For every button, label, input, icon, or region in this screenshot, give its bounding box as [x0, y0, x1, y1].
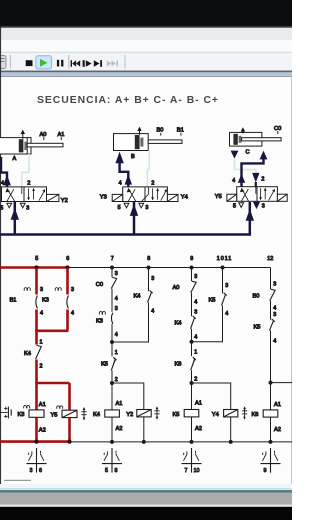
svg-text:K3: K3 — [42, 298, 49, 304]
valve B body — [123, 187, 168, 202]
svg-text:A2: A2 — [39, 428, 46, 434]
contact A0 (NC) — [173, 274, 198, 306]
svg-text:C0: C0 — [96, 282, 103, 288]
col5 wire coil to bottom rail — [35, 417, 38, 441]
svg-text:4: 4 — [225, 311, 228, 317]
contact K5 col1011 (open) — [209, 283, 229, 317]
col6 wire K3 to join — [66, 310, 69, 331]
coil Y4 — [212, 410, 238, 418]
svg-text:A1: A1 — [274, 402, 281, 408]
tube A rod-end (unpressurized) — [22, 154, 29, 187]
cylinder C piston — [233, 134, 241, 145]
cylinder A piston marker arrow — [21, 130, 25, 139]
svg-text:8: 8 — [115, 468, 118, 474]
svg-text:2: 2 — [40, 364, 43, 370]
valve C exhaust 5 — [239, 203, 244, 208]
tube B rod-end (unpressurized) — [147, 151, 149, 188]
col12 wire K5 to coil K6 — [270, 330, 272, 410]
valve B pilot box Y3 — [112, 194, 123, 201]
svg-text:Y3: Y3 — [100, 195, 107, 201]
flow arrow at cylinder C rod port (up) — [260, 151, 268, 160]
tube B cap-end (pressurized) — [120, 160, 129, 187]
bottom node K6 — [269, 440, 273, 444]
svg-text:2: 2 — [261, 177, 264, 183]
svg-text:12: 12 — [267, 256, 273, 262]
svg-text:4: 4 — [194, 335, 197, 341]
valve B port labels 4 2 — [119, 181, 155, 187]
svg-text:3: 3 — [194, 274, 197, 280]
svg-text:2: 2 — [115, 377, 118, 383]
svg-text:3: 3 — [40, 287, 43, 293]
svg-text:K3: K3 — [18, 412, 25, 418]
col7 wire to coil K4 — [111, 383, 113, 410]
coil Y2 — [126, 410, 151, 418]
bottom node K5 — [190, 440, 194, 444]
node 10/11 dot — [221, 266, 225, 270]
valve B right box flow paths — [151, 188, 167, 201]
col5 wire join to K4 — [35, 331, 38, 345]
Y2 wire to bottom rail — [143, 417, 145, 442]
svg-text:5: 5 — [118, 205, 121, 211]
svg-text:K6: K6 — [252, 412, 259, 418]
col12 wire coil to bottom rail — [270, 417, 272, 442]
skip-to-start button — [71, 60, 72, 67]
contact cross-reference K4 — [102, 448, 122, 474]
contact K6 col9 (open) — [175, 350, 198, 383]
coil Y5 — [51, 406, 78, 419]
flow arrow at cylinder B cap port — [115, 152, 123, 164]
light line above black — [0, 505, 292, 507]
label A0 — [40, 132, 47, 140]
svg-text:1: 1 — [194, 350, 197, 356]
contact K5 col7 (open) — [101, 350, 118, 383]
tube C cap-end (unpressurized) — [235, 159, 256, 174]
coil K3 — [18, 402, 46, 434]
svg-text:2: 2 — [27, 181, 30, 187]
svg-text:Y2: Y2 — [61, 198, 68, 204]
svg-text:6: 6 — [39, 468, 42, 474]
col9 wire to coil K5 — [191, 383, 193, 410]
svg-text:9: 9 — [190, 256, 193, 262]
tube A cap-end (pressurized) — [1, 157, 7, 187]
bottom node K3 — [34, 440, 38, 444]
svg-text:3: 3 — [273, 312, 276, 318]
svg-text:5: 5 — [35, 256, 38, 262]
svg-text:A1: A1 — [58, 132, 65, 138]
svg-text:A1: A1 — [116, 401, 123, 407]
contact cross-reference K3 — [27, 448, 47, 474]
contact C0 (NC) — [96, 271, 118, 302]
svg-text:2: 2 — [151, 181, 154, 187]
coil K5 — [173, 400, 202, 432]
flow arrow to valve A port4 — [3, 175, 11, 186]
valve B exhaust 3 — [139, 203, 144, 208]
contact K4 col8 (open) — [134, 276, 155, 314]
svg-text:B: B — [131, 154, 135, 160]
cylinder B body — [114, 134, 149, 151]
join rung 5-6 — [35, 329, 68, 332]
svg-text:Y5: Y5 — [215, 194, 222, 200]
Y4 wire to bottom rail — [230, 417, 232, 442]
Y2 branch rung — [112, 383, 144, 410]
teal line — [0, 490, 292, 492]
bottom cyan band — [0, 488, 292, 490]
toolbar separator — [9, 55, 11, 69]
valve A body — [2, 187, 47, 202]
contact K3 col7 (closed) — [96, 306, 118, 338]
flow arrow to valve B port4 — [125, 174, 132, 185]
cylinder C piston marker arrow — [241, 127, 245, 133]
scrollbar fragment line — [4, 480, 31, 481]
valve C left box flow paths — [240, 187, 256, 201]
svg-text:4: 4 — [115, 296, 118, 302]
valve A right box flow paths — [27, 188, 45, 201]
svg-text:5: 5 — [105, 468, 108, 474]
node col9 Y4 branch — [190, 381, 194, 385]
label A1 — [58, 132, 65, 140]
coil K4 — [93, 401, 122, 432]
contact K5 col12 (open) — [254, 312, 277, 344]
top letterbox bar — [0, 0, 292, 27]
bottom rail — [70, 441, 293, 443]
svg-text:A: A — [13, 156, 17, 162]
svg-text:A2: A2 — [116, 426, 123, 432]
svg-text:Y4: Y4 — [212, 412, 219, 418]
Y4 branch rung — [192, 383, 231, 410]
svg-text:A1: A1 — [39, 402, 46, 408]
valve B exhaust 5 — [124, 203, 129, 208]
flow arrow valve C port2 (down) — [252, 173, 259, 183]
supply flow arrow valve B — [130, 204, 138, 216]
label C0 — [274, 126, 281, 134]
node 9 dot — [190, 266, 194, 270]
svg-text:3: 3 — [145, 205, 148, 211]
svg-text:2: 2 — [194, 377, 197, 383]
stop button — [26, 60, 33, 66]
valve B pilot box Y4 — [167, 194, 178, 201]
tube valve C port2 segment — [255, 182, 257, 187]
svg-text:4: 4 — [1, 181, 4, 187]
window left border — [0, 27, 1, 507]
svg-text:B1: B1 — [10, 298, 17, 304]
cylinder B piston — [135, 135, 144, 149]
cylinder A body — [0, 138, 31, 154]
svg-text:4: 4 — [71, 311, 74, 317]
svg-text:K6: K6 — [175, 362, 182, 368]
canvas right edge line — [291, 77, 292, 489]
svg-text:9: 9 — [264, 468, 267, 474]
svg-text:3: 3 — [71, 287, 74, 293]
play-to-end button — [94, 60, 100, 67]
valve C port labels 5 3 — [233, 204, 265, 210]
svg-text:K5: K5 — [173, 412, 180, 418]
cylinder A rod — [27, 143, 63, 147]
contact B1 (closed) — [10, 287, 44, 317]
svg-text:K5: K5 — [101, 361, 108, 367]
valve A port labels 5 3 — [0, 205, 29, 211]
valve C pilot box right — [277, 194, 287, 201]
bottom node Y5 — [67, 440, 71, 444]
valve A pilot box Y2 — [47, 194, 59, 201]
Y2 solenoid link symbol — [154, 406, 159, 420]
bottom scrollbar light band — [0, 484, 292, 488]
svg-text:K4: K4 — [175, 320, 182, 326]
svg-text:1: 1 — [115, 350, 118, 356]
col9 wire coil to bottom rail — [191, 417, 193, 442]
contact cross-reference K5 — [182, 448, 202, 474]
svg-text:K4: K4 — [24, 351, 31, 357]
flow arrow to valve C port4 — [238, 174, 245, 183]
svg-text:3: 3 — [194, 309, 197, 315]
svg-text:4: 4 — [115, 332, 118, 338]
tube C rod-end (pressurized) — [242, 155, 264, 187]
svg-text:3: 3 — [26, 205, 29, 211]
node col9-col1011 join — [190, 340, 194, 344]
fast-forward button (disabled) — [107, 61, 112, 67]
svg-text:B1: B1 — [177, 128, 184, 134]
node 5 dot — [34, 265, 38, 269]
node 7 dot — [110, 266, 114, 270]
valve A exhaust 3 — [20, 203, 25, 208]
valve B port labels 5 3 — [118, 205, 149, 211]
coil K6 — [252, 402, 281, 433]
branch rung to right edge — [271, 382, 293, 384]
node 6 dot — [65, 265, 69, 269]
menu bar — [0, 40, 292, 52]
supply riser valve A — [14, 202, 17, 235]
gray player band — [0, 492, 292, 504]
Y5 solenoid link symbol — [81, 407, 86, 421]
Y4 solenoid link symbol — [242, 406, 247, 420]
svg-text:4: 4 — [232, 178, 235, 184]
col5 wire K4 to Y branch — [35, 360, 38, 384]
col8 wire rail to K4 — [148, 268, 150, 292]
schematic canvas — [0, 77, 292, 488]
svg-text:7: 7 — [111, 256, 114, 262]
svg-text:3: 3 — [30, 468, 33, 474]
toolbar — [0, 52, 292, 71]
col7 wire K3 to node — [111, 324, 113, 383]
pause button — [57, 60, 59, 67]
valve C body — [237, 187, 278, 202]
cylinder A piston — [19, 139, 27, 152]
svg-text:1011: 1011 — [217, 256, 232, 262]
col1011 wire rail to K5 — [222, 268, 224, 294]
svg-text:5: 5 — [233, 204, 236, 210]
cylinder B rod — [148, 140, 182, 144]
supply flow arrow valve C — [246, 209, 254, 221]
valve A exhaust 5 — [7, 203, 12, 208]
valve C exhaust flow arrow port3 (down) — [253, 202, 260, 209]
svg-text:6: 6 — [66, 256, 69, 262]
svg-text:1: 1 — [40, 340, 43, 346]
toolbar separator 2 — [68, 55, 70, 69]
bottom rail energized segment — [0, 440, 70, 443]
svg-text:3: 3 — [151, 276, 154, 282]
valve C right box flow paths — [259, 188, 275, 201]
Y5 wire to bottom rail — [68, 418, 71, 442]
svg-text:7: 7 — [185, 468, 188, 474]
valve A port labels 4 2 — [1, 181, 30, 187]
svg-text:K5: K5 — [254, 325, 261, 331]
cylinder C rod — [242, 138, 282, 141]
step-forward button — [83, 60, 85, 67]
col5 wire to coil K3 — [35, 383, 38, 410]
svg-text:K4: K4 — [134, 293, 141, 299]
svg-text:3: 3 — [115, 271, 118, 277]
svg-text:K4: K4 — [93, 412, 100, 418]
svg-text:4: 4 — [273, 306, 276, 312]
power supply fragment at left edge — [0, 407, 11, 419]
node col12 branch — [269, 381, 273, 385]
svg-text:K3: K3 — [96, 319, 103, 325]
col9 wire K4 to node — [191, 329, 193, 383]
toolbar left partial icon — [0, 56, 6, 69]
col7 wire coil to bottom rail — [111, 417, 113, 442]
node 8 dot — [147, 266, 151, 270]
svg-text:4: 4 — [273, 338, 276, 344]
svg-text:10: 10 — [194, 468, 200, 474]
col12 wire B0 to K5 — [270, 301, 272, 320]
cylinder C body — [230, 132, 262, 146]
supply riser valve B — [133, 202, 136, 235]
col9 wire A0 to K4 — [191, 293, 193, 316]
contact K4 col5 (NC closed) — [24, 340, 43, 370]
valve C port labels 4 2 — [232, 177, 264, 184]
svg-text:A2: A2 — [195, 426, 202, 432]
svg-text:C: C — [246, 150, 250, 156]
valve A left box flow paths — [5, 187, 21, 201]
contact B0 (NC) — [253, 281, 277, 311]
top rail energized segment — [0, 266, 68, 269]
col9 wire rail to A0 — [191, 268, 193, 282]
svg-text:8: 8 — [147, 256, 150, 262]
col5 wire B1 to join — [35, 310, 38, 332]
col12 wire from rail corner — [270, 268, 272, 290]
cylinder B piston marker arrow — [137, 127, 141, 135]
bottom node Y4 — [229, 440, 233, 444]
supply flow arrow valve A — [11, 208, 19, 220]
air supply manifold — [0, 202, 250, 235]
svg-text:3: 3 — [225, 283, 228, 289]
svg-text:B0: B0 — [157, 128, 164, 134]
svg-text:4: 4 — [151, 308, 154, 314]
contact K3 col6 (closed) — [42, 287, 74, 317]
svg-text:4: 4 — [40, 311, 43, 317]
svg-text:B0: B0 — [253, 293, 260, 299]
col6 wire rail to K3 — [66, 268, 69, 295]
svg-text:Y4: Y4 — [181, 195, 188, 201]
valve B left box flow paths — [127, 187, 149, 201]
bottom node K4 — [110, 440, 114, 444]
top rail — [68, 267, 271, 269]
svg-text:4: 4 — [194, 299, 197, 305]
svg-text:Y5: Y5 — [51, 412, 58, 418]
contact cross-reference K6 — [261, 448, 281, 474]
svg-text:A0: A0 — [40, 132, 47, 138]
Y5 branch wire — [68, 383, 71, 410]
col8 wire K4 to join — [112, 302, 149, 342]
play button (active, highlighted) — [36, 56, 52, 69]
flow arrow at cylinder C cap port (down) — [231, 151, 239, 159]
contact K4 col9 (open) — [175, 309, 198, 340]
svg-text:3: 3 — [262, 204, 265, 210]
svg-text:3: 3 — [115, 306, 118, 312]
label B1 — [177, 128, 184, 136]
valve C pilot box Y5 — [227, 194, 237, 201]
toolbar separator 3 — [124, 55, 126, 69]
window title bar — [0, 27, 292, 40]
svg-text:4: 4 — [119, 181, 122, 187]
svg-text:SECUENCIA: A+ B+ C- A- B- C+: SECUENCIA: A+ B+ C- A- B- C+ — [37, 95, 218, 106]
node col7-col8 join — [110, 340, 114, 344]
col1011 wire K5 to join — [192, 306, 223, 342]
svg-text:A2: A2 — [274, 427, 281, 433]
label B0 — [157, 128, 164, 136]
svg-text:Y2: Y2 — [126, 412, 133, 418]
svg-text:A1: A1 — [195, 400, 202, 406]
svg-text:5: 5 — [0, 205, 3, 211]
svg-text:K5: K5 — [209, 297, 216, 303]
svg-text:A0: A0 — [173, 285, 180, 291]
bottom letterbox bar — [0, 507, 292, 520]
col5 wire rail to B1 — [35, 268, 38, 295]
col7 wire rail to C0 — [111, 268, 113, 278]
blue strip under toolbar — [0, 72, 292, 76]
svg-text:3: 3 — [273, 281, 276, 287]
bottom node Y2 — [142, 440, 146, 444]
node col7 Y2 branch — [110, 381, 114, 385]
col7 wire C0 to K3 — [111, 289, 113, 312]
branch rung to Y5 — [35, 382, 69, 385]
